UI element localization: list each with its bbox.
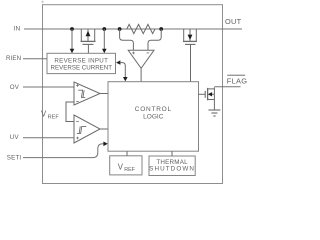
comparator U2 UV bbox=[74, 115, 100, 143]
wire VREF box to control logic bbox=[126, 151, 128, 156]
svg-text:REF: REF bbox=[124, 167, 135, 173]
svg-text:V: V bbox=[118, 163, 124, 172]
wire U1 output bbox=[100, 93, 108, 95]
wire M2 gate to control logic bbox=[190, 44, 192, 81]
wire thermal to control logic bbox=[171, 151, 173, 156]
node J1 bbox=[70, 27, 74, 31]
svg-text:FLAG: FLAG bbox=[227, 76, 248, 85]
comparator U1 OV bbox=[74, 82, 100, 105]
wire control logic to Q3 gate bbox=[199, 93, 206, 95]
op-amp A1 current sense bbox=[128, 50, 154, 68]
transistor M2 output NMOS bbox=[183, 29, 197, 44]
wire A1 output to control logic bbox=[140, 68, 142, 81]
hysteresis mark U1 bbox=[77, 90, 86, 97]
wire R1 right to amp bbox=[148, 29, 161, 50]
block control logic bbox=[108, 82, 199, 152]
svg-text:OUT: OUT bbox=[225, 17, 242, 26]
transistor M1 input PMOS bbox=[81, 29, 96, 44]
svg-text:IN: IN bbox=[13, 26, 20, 33]
wire J1 to reverse block bbox=[71, 29, 73, 49]
svg-text:OV: OV bbox=[10, 84, 20, 91]
wire J2 to reverse block bbox=[103, 29, 105, 49]
outer block boundary bbox=[43, 5, 223, 184]
wire reverse block to control logic (double arrow) bbox=[116, 60, 120, 64]
block thermal shutdown bbox=[149, 156, 195, 176]
node R1 left bbox=[118, 27, 122, 31]
svg-text:REF: REF bbox=[48, 115, 60, 121]
pin FLAG label with overbar bbox=[227, 74, 245, 76]
wire VREF to comparators bbox=[66, 102, 74, 122]
ground bbox=[208, 110, 220, 116]
wire IN rail bbox=[24, 28, 242, 30]
artifact speck above corner bbox=[41, 1, 44, 4]
svg-text:UV: UV bbox=[10, 134, 20, 141]
svg-text:SETI: SETI bbox=[7, 154, 22, 161]
svg-text:RIEN: RIEN bbox=[6, 55, 21, 62]
svg-text:REVERSE CURRENT: REVERSE CURRENT bbox=[51, 65, 113, 72]
wire R1 left to amp bbox=[120, 29, 134, 50]
transistor Q3 flag pulldown bbox=[205, 87, 214, 110]
wire FLAG bbox=[214, 86, 240, 88]
wire UV bbox=[23, 137, 74, 139]
svg-text:V: V bbox=[41, 109, 47, 118]
wire U2 output bbox=[100, 128, 108, 130]
node J2 bbox=[102, 27, 106, 31]
node R1 right bbox=[159, 27, 163, 31]
block reverse input / reverse current bbox=[47, 53, 116, 73]
svg-text:LOGIC: LOGIC bbox=[143, 113, 164, 120]
svg-text:SHUTDOWN: SHUTDOWN bbox=[149, 166, 195, 173]
svg-text:REVERSE INPUT: REVERSE INPUT bbox=[54, 57, 108, 64]
resistor sense R1 bbox=[127, 24, 155, 33]
svg-text:CONTROL: CONTROL bbox=[135, 106, 172, 113]
hysteresis mark U2 bbox=[77, 126, 86, 133]
wire RIEN bbox=[23, 58, 47, 60]
wire M1 gate to reverse block bbox=[87, 44, 89, 53]
block VREF bbox=[110, 156, 142, 175]
wire SETI to control logic bbox=[23, 144, 104, 158]
wire OV bbox=[23, 86, 74, 88]
